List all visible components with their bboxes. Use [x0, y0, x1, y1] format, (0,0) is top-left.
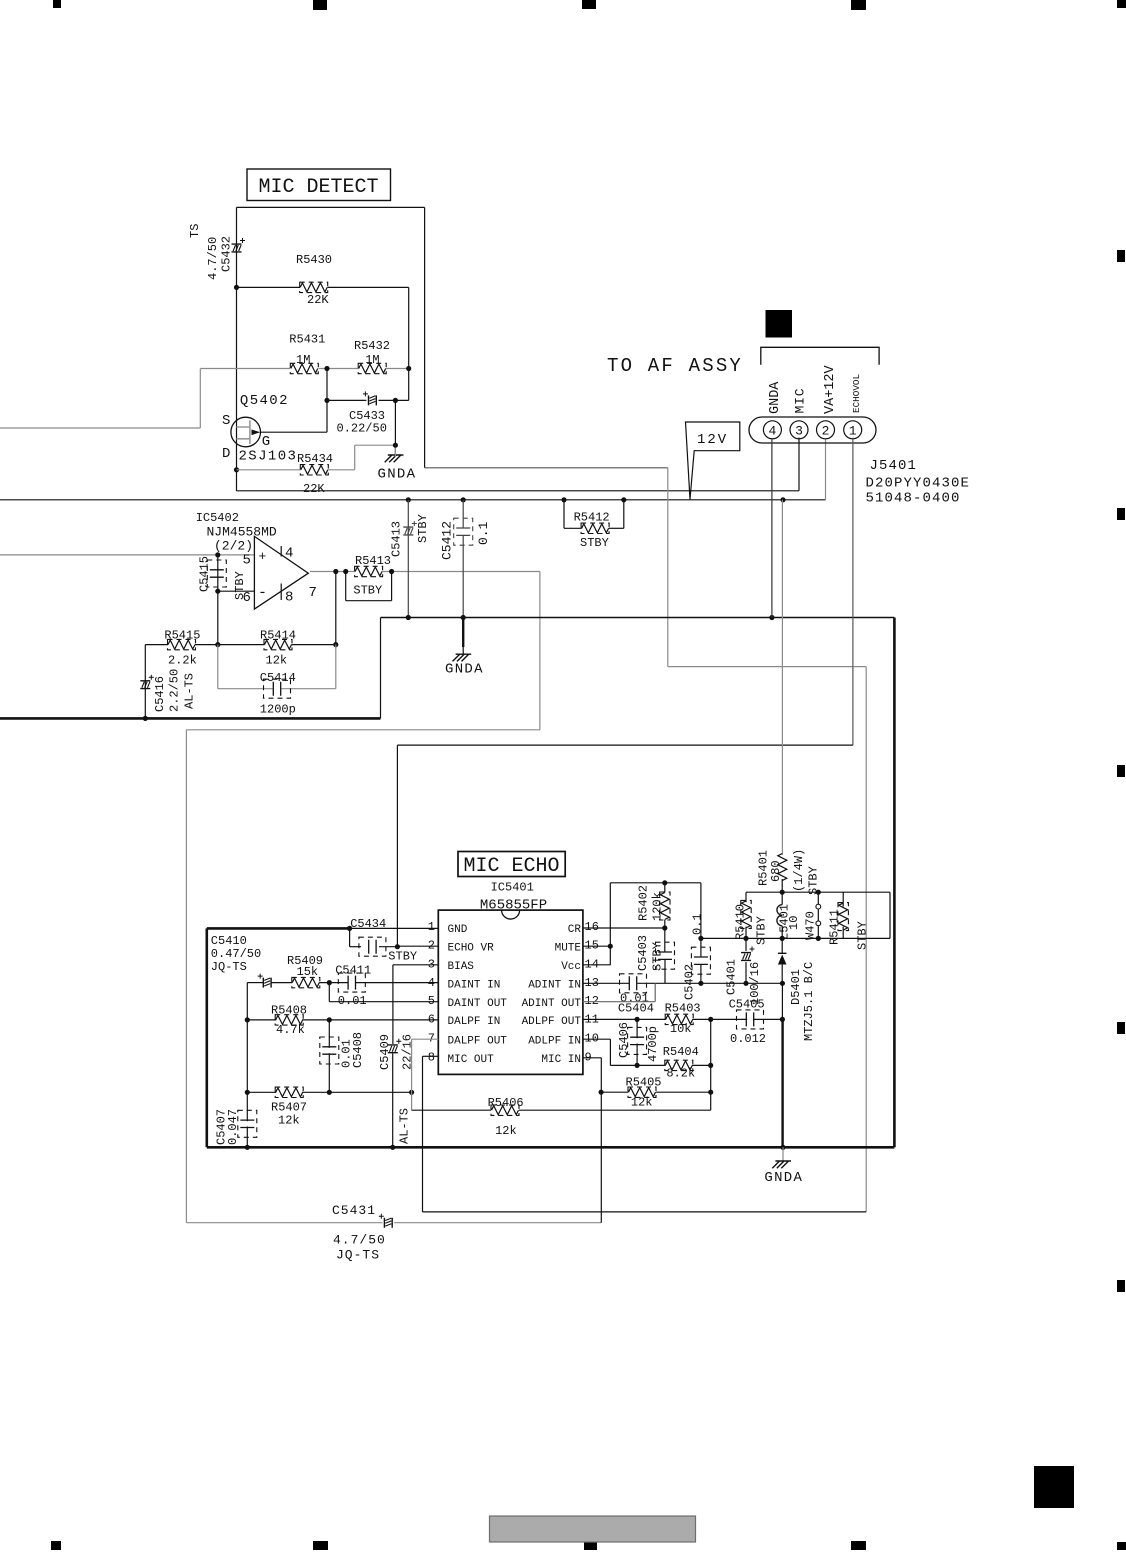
node C5432/R5430 junction [234, 285, 239, 290]
svg-text:R5412: R5412 [574, 511, 610, 525]
svg-text:STBY: STBY [233, 571, 247, 600]
svg-text:M65855FP: M65855FP [480, 898, 547, 914]
capacitor C5433 0.22/50 [327, 369, 409, 436]
svg-text:TO AF ASSY: TO AF ASSY [607, 355, 743, 377]
svg-text:STBY: STBY [580, 536, 609, 550]
capacitor C5408 0.01 [320, 1020, 365, 1092]
svg-text:R5430: R5430 [296, 253, 332, 267]
capacitor C5410 (electrolytic) [247, 974, 292, 988]
svg-text:MIC IN: MIC IN [541, 1054, 581, 1066]
resistor R5405 12k [601, 1076, 711, 1110]
svg-text:C5403: C5403 [636, 935, 650, 971]
svg-text:4.7/50: 4.7/50 [206, 237, 220, 280]
svg-text:C5406: C5406 [617, 1022, 631, 1058]
svg-text:MIC: MIC [793, 388, 808, 414]
svg-text:R5407: R5407 [271, 1101, 307, 1115]
svg-text:15k: 15k [297, 965, 319, 979]
wire pin12 loop [583, 983, 655, 1001]
svg-text:C5401: C5401 [725, 959, 739, 995]
svg-text:JQ-TS: JQ-TS [211, 960, 247, 974]
wire x=710 column [708, 1019, 713, 1110]
svg-text:4.7k: 4.7k [276, 1023, 305, 1037]
large black square bottom right [1034, 1466, 1074, 1508]
wire pin11 ADLPF OUT row [583, 1017, 785, 1022]
wire pin10 ADLPF IN net [583, 1039, 713, 1068]
svg-text:C5412: C5412 [440, 521, 455, 560]
svg-text:DAINT IN: DAINT IN [448, 980, 501, 992]
resistor R5432 1M [354, 339, 390, 374]
svg-text:BIAS: BIAS [448, 961, 475, 973]
wire Vcc/MUTE net [583, 880, 704, 986]
svg-text:-: - [258, 585, 267, 602]
registration mark bottom 2 [313, 1541, 328, 1550]
wire left column x=247 [245, 983, 250, 1148]
label C5410 values [211, 934, 261, 974]
svg-text:+: + [259, 549, 267, 564]
svg-text:DAINT OUT: DAINT OUT [448, 998, 508, 1010]
svg-text:1M: 1M [365, 353, 379, 367]
resistor R5403 10k [665, 1002, 701, 1037]
wire op-amp output net [186, 569, 601, 1223]
svg-text:2.2k: 2.2k [168, 654, 197, 668]
wire analog ground rail [0, 615, 894, 1150]
svg-text:STBY: STBY [388, 950, 417, 964]
svg-text:GNDA: GNDA [378, 467, 417, 483]
ground GNDA (mic detect) [378, 400, 417, 482]
svg-text:0.012: 0.012 [730, 1032, 766, 1046]
svg-text:R5404: R5404 [663, 1045, 699, 1059]
svg-text:Vcc: Vcc [561, 961, 581, 973]
inductor L5401 10 [777, 892, 801, 940]
registration mark top 1 [53, 0, 61, 8]
svg-text:W470: W470 [804, 911, 818, 940]
svg-text:R5413: R5413 [355, 554, 391, 568]
resistor R5406 12k [488, 1096, 524, 1138]
svg-text:C5408: C5408 [351, 1032, 365, 1068]
svg-text:ADLPF OUT: ADLPF OUT [522, 1016, 582, 1028]
registration mark right 4 [1117, 1022, 1125, 1034]
capacitor C5415 STBY [198, 555, 255, 600]
svg-text:C5402: C5402 [683, 964, 697, 1000]
svg-text:STBY: STBY [353, 584, 382, 598]
label MIC pin3 [793, 388, 808, 414]
svg-text:R5405: R5405 [626, 1076, 662, 1090]
svg-text:DALPF IN: DALPF IN [448, 1016, 501, 1028]
wire R5431-R5432 row [319, 366, 412, 371]
svg-text:120k: 120k [651, 892, 665, 921]
svg-text:R5415: R5415 [164, 629, 200, 643]
svg-text:DALPF OUT: DALPF OUT [448, 1035, 508, 1047]
registration mark right 2 [1117, 508, 1125, 520]
svg-text:680: 680 [769, 860, 783, 882]
resistor R5413 STBY [353, 554, 391, 598]
capacitor C5402 0.1 [683, 913, 711, 1000]
connector J5401 [749, 417, 876, 443]
svg-text:1: 1 [849, 423, 857, 438]
svg-text:ADINT OUT: ADINT OUT [522, 998, 582, 1010]
capacitor C5431 4.7/50 JQ-TS [332, 1203, 392, 1263]
wire R5430 row [237, 287, 409, 368]
svg-text:1M: 1M [296, 353, 310, 367]
resistor R5401 680 (1/4W) [757, 500, 821, 895]
svg-text:51048-0400: 51048-0400 [866, 491, 961, 507]
svg-text:12k: 12k [278, 1114, 300, 1128]
svg-text:0.01: 0.01 [338, 994, 367, 1008]
svg-text:4.7/50: 4.7/50 [333, 1233, 386, 1248]
svg-text:4: 4 [768, 423, 776, 438]
registration mark bottom 1 [51, 1541, 61, 1550]
svg-text:12k: 12k [631, 1096, 653, 1110]
label TO AF ASSY [607, 355, 743, 377]
svg-text:TS: TS [188, 224, 202, 238]
shield box C5410 block left/bottom (thick) [206, 928, 209, 1147]
svg-text:R5408: R5408 [271, 1004, 307, 1018]
svg-text:0.1: 0.1 [691, 913, 705, 935]
IC U5401 M65855FP body [438, 881, 583, 1075]
svg-text:STBY: STBY [416, 514, 430, 543]
svg-text:C5415: C5415 [198, 556, 212, 592]
svg-text:8.2k: 8.2k [666, 1067, 695, 1081]
wire connector pin4 GNDA [771, 439, 773, 618]
wire ECHOVOL net [395, 438, 853, 950]
svg-text:16: 16 [585, 920, 599, 934]
registration mark right 3 [1117, 765, 1125, 777]
svg-text:C5411: C5411 [335, 964, 371, 978]
svg-text:(2/2): (2/2) [214, 539, 253, 554]
svg-text:1200p: 1200p [260, 703, 296, 717]
svg-text:5: 5 [243, 553, 251, 569]
MIC ECHO title box [458, 852, 565, 879]
svg-text:0.1: 0.1 [476, 521, 491, 545]
svg-text:R5414: R5414 [260, 629, 296, 643]
svg-text:4700p: 4700p [646, 1026, 660, 1062]
wire VA+12V bus [0, 439, 826, 503]
svg-text:C5413: C5413 [390, 521, 404, 557]
resistor R5409 15k [287, 954, 323, 988]
wire gate net vertical [324, 369, 329, 433]
svg-text:GNDA: GNDA [768, 381, 783, 414]
resistor R5408 4.7k [247, 1004, 438, 1038]
resistor R5404 8.2k [663, 1045, 699, 1081]
capacitor C5403 STBY [636, 928, 675, 983]
resistor R5431 1M [289, 333, 325, 374]
wire echo sub rails [701, 890, 890, 941]
svg-text:C5431: C5431 [332, 1203, 376, 1218]
svg-text:R5432: R5432 [354, 339, 390, 353]
label AL-TS [398, 1108, 412, 1144]
svg-text:MIC OUT: MIC OUT [448, 1054, 495, 1066]
svg-text:R5410: R5410 [733, 904, 747, 940]
resistor R5430 22K [296, 253, 332, 307]
svg-text:0.47/50: 0.47/50 [211, 947, 261, 961]
capacitor C5406 4700p [617, 1019, 660, 1065]
svg-text:C5414: C5414 [260, 671, 296, 685]
wire pin9 MIC IN net [583, 1058, 604, 1223]
svg-text:ADINT IN: ADINT IN [528, 980, 581, 992]
svg-text:IC5402: IC5402 [196, 511, 239, 525]
svg-text:GNDA: GNDA [764, 1170, 803, 1186]
wire pin13 ADINT IN row [583, 981, 785, 986]
svg-text:0.047: 0.047 [226, 1109, 240, 1145]
svg-text:D: D [222, 446, 232, 462]
capacitor C5412 0.1 [440, 500, 492, 618]
op-amp U IC5402 NJM4558MD [196, 511, 317, 609]
svg-text:C5432: C5432 [220, 236, 234, 272]
resistor R5410 STBY [733, 892, 768, 945]
MIC DETECT frame [237, 207, 425, 491]
resistor R5434 22K [297, 452, 333, 496]
svg-text:C5409: C5409 [378, 1034, 392, 1070]
label J5401 refs [866, 458, 971, 507]
wire op-amp +input from left [0, 552, 254, 557]
svg-text:MUTE: MUTE [555, 942, 582, 954]
svg-text:AL-TS: AL-TS [183, 673, 197, 709]
svg-text:NJM4558MD: NJM4558MD [207, 525, 277, 540]
capacitor C5434 [350, 917, 439, 964]
wire pin5 link [329, 983, 438, 1002]
label ECHOVOL pin1 [851, 374, 862, 413]
svg-text:S: S [222, 413, 232, 429]
wire MIC return net [423, 468, 867, 1212]
svg-text:R5403: R5403 [665, 1002, 701, 1016]
svg-text:R5431: R5431 [289, 333, 325, 347]
svg-text:GNDA: GNDA [445, 662, 484, 678]
svg-text:C5404: C5404 [618, 1002, 654, 1016]
svg-text:STBY: STBY [807, 866, 821, 895]
svg-text:R5402: R5402 [637, 885, 651, 921]
wire R5434 row [234, 443, 398, 473]
capacitor C5414 1200p [218, 645, 336, 717]
wire input net from left [0, 369, 290, 429]
registration mark bottom 3 [584, 1541, 597, 1550]
capacitor C5405 0.012 [729, 998, 766, 1047]
12V callout flag [686, 422, 740, 499]
svg-text:2: 2 [822, 423, 830, 438]
svg-text:(1/4W): (1/4W) [792, 849, 806, 892]
svg-text:C5405: C5405 [729, 998, 765, 1012]
registration mark top 4 [851, 0, 866, 10]
registration mark right 1 [1117, 250, 1125, 262]
wire feedback row [145, 572, 338, 648]
svg-text:22K: 22K [307, 293, 329, 307]
capacitor C5409 22/16 (BIAS) [378, 965, 438, 1148]
svg-text:10: 10 [787, 916, 801, 930]
wire CR row [583, 925, 667, 930]
registration mark bottom right corner [1117, 1542, 1126, 1550]
svg-text:JQ-TS: JQ-TS [336, 1248, 380, 1263]
svg-text:STBY: STBY [651, 942, 665, 971]
svg-text:22K: 22K [303, 482, 325, 496]
svg-text:J5401: J5401 [870, 458, 918, 474]
large black square above connector [766, 310, 793, 338]
svg-text:VA+12V: VA+12V [823, 364, 838, 414]
wire GND pin1 row [207, 926, 438, 931]
svg-text:10k: 10k [670, 1022, 692, 1036]
svg-text:0.22/50: 0.22/50 [337, 422, 387, 436]
wire pin7 DALPF OUT net [412, 1039, 711, 1110]
svg-text:12V: 12V [697, 432, 728, 448]
svg-text:7: 7 [309, 585, 317, 601]
svg-text:2SJ103: 2SJ103 [239, 449, 298, 465]
svg-text:C5410: C5410 [211, 934, 247, 948]
svg-text:MTZJ5.1 B/C: MTZJ5.1 B/C [802, 962, 816, 1041]
capacitor C5411 0.01 [335, 964, 371, 1009]
svg-text:C5434: C5434 [350, 917, 386, 931]
resistor R5414 12k [260, 629, 296, 668]
registration mark bottom 4 [851, 1541, 866, 1550]
svg-text:Q5402: Q5402 [240, 393, 289, 409]
registration mark top 3 [582, 0, 596, 9]
svg-text:ECHO VR: ECHO VR [448, 942, 495, 954]
ground GNDA (center) [445, 618, 484, 678]
svg-text:IC5401: IC5401 [491, 881, 534, 895]
svg-text:CR: CR [568, 924, 582, 936]
capacitor C5416 2.2/50 AL-TS [140, 645, 196, 719]
capacitor C5407 0.047 [215, 1109, 257, 1145]
svg-text:12k: 12k [266, 654, 288, 668]
svg-text:R5434: R5434 [297, 452, 333, 466]
resistor R5407 12k [247, 1087, 414, 1127]
svg-text:R5411: R5411 [828, 909, 842, 945]
IC5401 pin labels and numbers [428, 920, 599, 1066]
resistor R5412 STBY [564, 500, 624, 550]
svg-text:AL-TS: AL-TS [398, 1108, 412, 1144]
bracket above connector [761, 347, 879, 365]
diode D5401 MTZJ5.1 B/C [778, 938, 816, 1041]
label GNDA pin4 [768, 381, 783, 414]
svg-text:ECHOVOL: ECHOVOL [851, 374, 862, 413]
svg-text:2.2/50: 2.2/50 [168, 669, 182, 712]
svg-text:MIC ECHO: MIC ECHO [464, 855, 560, 878]
registration mark top 2 [313, 0, 327, 10]
jumper W470 [804, 892, 821, 940]
capacitor C5413 STBY [390, 500, 431, 618]
svg-text:12k: 12k [495, 1124, 517, 1138]
svg-text:ADLPF IN: ADLPF IN [528, 1035, 581, 1047]
capacitor C5432 [188, 224, 245, 280]
svg-text:C5416: C5416 [153, 676, 167, 712]
svg-text:8: 8 [428, 1050, 435, 1064]
wire pin4 row [319, 980, 438, 985]
svg-text:R5406: R5406 [488, 1096, 524, 1110]
wire GNDA branch x=782 [781, 983, 783, 1147]
capacitor C5404 0.01 [618, 974, 654, 1016]
svg-text:1: 1 [428, 920, 435, 934]
svg-text:D5401: D5401 [789, 969, 803, 1005]
ground GNDA (bottom) [764, 1147, 803, 1186]
label VA+12V pin2 [823, 364, 838, 414]
transistor Q5402 2SJ103 [222, 393, 327, 465]
registration mark right 5 [1117, 1280, 1125, 1292]
resistor R5402 120k [637, 883, 671, 928]
svg-text:4: 4 [285, 546, 293, 562]
wire MIC bus (mic detect bottom edge to pin3) [237, 438, 800, 491]
wire R5413 bypass loop [346, 572, 392, 601]
MIC DETECT title box [247, 169, 391, 201]
gray label box bottom [490, 1516, 696, 1542]
registration mark top right corner [1117, 0, 1126, 8]
svg-text:8: 8 [285, 590, 293, 606]
svg-text:GND: GND [448, 924, 468, 936]
svg-text:MIC DETECT: MIC DETECT [259, 176, 379, 199]
capacitor C5401 100/16 [725, 938, 763, 1005]
resistor R5411 STBY [828, 892, 870, 950]
svg-text:3: 3 [795, 423, 803, 438]
resistor R5415 2.2k [164, 629, 200, 668]
svg-text:STBY: STBY [755, 916, 769, 945]
svg-text:D20PYY0430E: D20PYY0430E [866, 476, 971, 492]
svg-text:STBY: STBY [856, 921, 870, 950]
